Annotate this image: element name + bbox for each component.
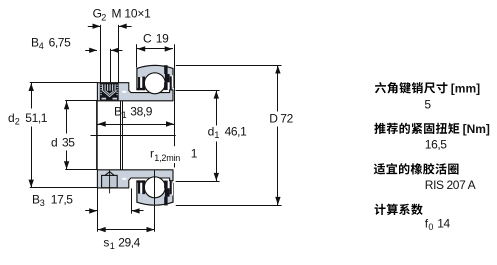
svg-text:14: 14 xyxy=(437,217,450,231)
spec label suitable rubber seating ring xyxy=(374,163,459,174)
seal pocket gaps top xyxy=(137,75,173,91)
svg-text:19: 19 xyxy=(156,31,169,45)
svg-text:d: d xyxy=(8,111,14,125)
inner ring bottom section with locking collar xyxy=(97,170,173,188)
svg-text:M 10×1: M 10×1 xyxy=(112,7,152,21)
dimension G2 arrows xyxy=(88,24,132,29)
svg-text:17,5: 17,5 xyxy=(51,192,73,206)
svg-text:1: 1 xyxy=(122,110,127,120)
seal strips left bottom xyxy=(137,180,145,194)
spec label recommended tightening torque [Nm] xyxy=(374,123,459,134)
lubrication hole top xyxy=(165,74,170,82)
svg-text:5: 5 xyxy=(424,98,431,112)
svg-text:d: d xyxy=(51,135,57,149)
svg-text:[mm]: [mm] xyxy=(451,81,480,95)
dimension G2 extension lines xyxy=(101,25,119,83)
svg-text:16,5: 16,5 xyxy=(425,138,447,152)
svg-text:1: 1 xyxy=(214,130,219,140)
seal strips right bottom xyxy=(164,181,172,195)
dimension d1 extension lines xyxy=(176,91,220,182)
svg-text:D: D xyxy=(269,111,278,125)
bore far-side silhouette lines xyxy=(97,101,123,170)
dimension D extension lines xyxy=(176,66,282,206)
svg-text:3: 3 xyxy=(40,198,45,208)
svg-text:2: 2 xyxy=(101,13,106,23)
dimension D line xyxy=(275,65,280,205)
svg-text:29,4: 29,4 xyxy=(118,236,140,250)
seal pocket gaps bottom xyxy=(137,179,173,195)
seal strips left top xyxy=(137,77,145,91)
svg-text:[Nm]: [Nm] xyxy=(463,122,490,136)
dimension d1 line xyxy=(214,90,219,181)
dimension B4 extension line at screw axis xyxy=(110,49,112,83)
svg-text:C: C xyxy=(143,31,152,45)
dimension d line xyxy=(64,101,69,170)
lubrication hole bottom xyxy=(165,188,170,196)
svg-text:s: s xyxy=(103,236,109,250)
dimension d extension lines xyxy=(65,101,97,170)
spec label calculation factor xyxy=(375,204,423,215)
svg-text:1: 1 xyxy=(110,241,115,251)
dimension B1 line xyxy=(97,121,174,126)
svg-text:6,75: 6,75 xyxy=(49,35,71,49)
svg-text:72: 72 xyxy=(280,111,293,125)
svg-text:1,2min: 1,2min xyxy=(154,153,180,163)
dimension C line xyxy=(137,46,173,51)
grub screw G1 bottom view xyxy=(102,170,118,193)
svg-text:4: 4 xyxy=(39,41,44,51)
svg-text:B: B xyxy=(31,35,39,49)
svg-text:0: 0 xyxy=(428,222,433,232)
ball bottom xyxy=(144,177,165,198)
outer ring top section xyxy=(137,65,173,90)
dimension s1 line xyxy=(97,227,154,232)
svg-text:38,9: 38,9 xyxy=(130,104,152,118)
dimension C extension lines xyxy=(137,44,175,167)
spec label hex key size [mm] xyxy=(375,82,448,93)
lubrication groove top xyxy=(164,65,167,74)
svg-text:B: B xyxy=(32,192,40,206)
svg-text:46,1: 46,1 xyxy=(225,124,247,138)
dimension d2 extension lines xyxy=(30,83,98,188)
svg-text:RIS 207 A: RIS 207 A xyxy=(425,178,476,192)
dimension d2 line xyxy=(29,83,34,188)
dimension B3 arrows xyxy=(85,208,143,213)
svg-text:2: 2 xyxy=(15,117,20,127)
grub screw G1 top sectioned xyxy=(100,83,119,100)
dimension B4 arrows xyxy=(85,48,122,53)
dimension B3 extension lines xyxy=(98,188,132,231)
seal strips right top xyxy=(164,76,172,90)
lubrication groove bottom xyxy=(164,197,167,206)
svg-text:1: 1 xyxy=(191,147,198,161)
bearing axis centerline xyxy=(91,135,176,137)
svg-text:35: 35 xyxy=(62,135,75,149)
svg-text:d: d xyxy=(208,124,214,138)
ball top xyxy=(144,73,165,94)
inner ring top section with locking collar xyxy=(97,83,173,101)
outer ring bottom section xyxy=(137,180,173,205)
dimension s1 extension line through bottom ball center xyxy=(154,170,156,232)
svg-text:51,1: 51,1 xyxy=(25,111,47,125)
